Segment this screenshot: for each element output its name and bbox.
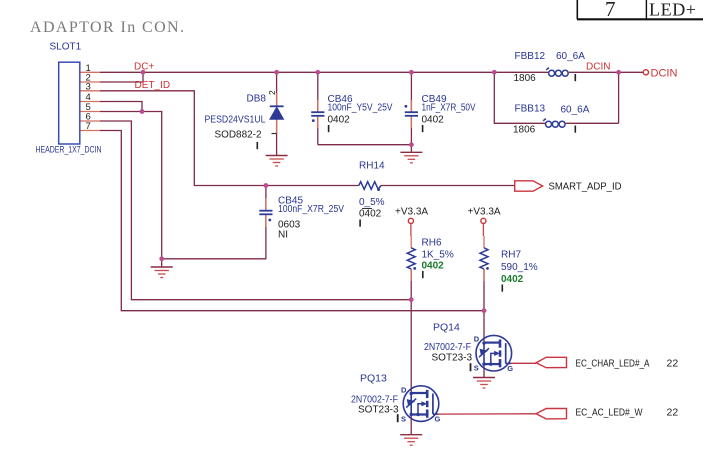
svg-text:+V3.3A: +V3.3A	[395, 207, 428, 218]
svg-text:SMART_ADP_ID: SMART_ADP_ID	[549, 181, 622, 193]
svg-text:DCIN: DCIN	[586, 62, 610, 73]
svg-text:60_6A: 60_6A	[556, 51, 585, 62]
svg-text:SOT23-3: SOT23-3	[432, 353, 473, 364]
svg-text:0402: 0402	[501, 274, 524, 285]
svg-text:22: 22	[667, 407, 679, 419]
svg-text:0402: 0402	[422, 261, 445, 272]
svg-text:SLOT1: SLOT1	[50, 42, 82, 53]
svg-text:EC_CHAR_LED#_A: EC_CHAR_LED#_A	[576, 358, 650, 370]
svg-text:D: D	[474, 335, 480, 344]
svg-text:S: S	[474, 364, 479, 373]
svg-text:RH14: RH14	[359, 161, 385, 172]
svg-text:SOD882-2: SOD882-2	[215, 130, 262, 141]
svg-text:2N7002-7-F: 2N7002-7-F	[424, 342, 471, 353]
svg-text:0_5%: 0_5%	[359, 197, 385, 208]
svg-text:LED+: LED+	[649, 0, 697, 20]
svg-text:+V3.3A: +V3.3A	[468, 207, 501, 218]
svg-text:RH7: RH7	[501, 250, 521, 261]
svg-text:0402: 0402	[328, 115, 351, 126]
svg-text:1nF_X7R_50V: 1nF_X7R_50V	[422, 103, 476, 114]
svg-text:FBB12: FBB12	[515, 51, 546, 62]
svg-text:1806: 1806	[513, 125, 536, 136]
svg-text:PQ13: PQ13	[360, 373, 387, 385]
svg-text:0402: 0402	[359, 209, 382, 220]
svg-text:1806: 1806	[514, 73, 537, 84]
svg-text:7: 7	[86, 121, 91, 132]
svg-text:DC+: DC+	[134, 62, 154, 73]
svg-text:SOT23-3: SOT23-3	[358, 405, 399, 416]
svg-text:DB8: DB8	[247, 94, 267, 105]
svg-text:0402: 0402	[422, 115, 445, 126]
svg-text:RH6: RH6	[422, 238, 442, 249]
svg-text:D: D	[401, 386, 407, 395]
svg-text:7: 7	[605, 0, 616, 21]
svg-text:HEADER_1X7_DCIN: HEADER_1X7_DCIN	[36, 145, 102, 156]
svg-text:590_1%: 590_1%	[501, 262, 538, 273]
svg-text:G: G	[435, 415, 441, 424]
svg-text:60_6A: 60_6A	[561, 105, 590, 116]
svg-text:S: S	[401, 415, 406, 424]
svg-text:DET_ID: DET_ID	[135, 80, 171, 91]
svg-text:1K_5%: 1K_5%	[422, 250, 454, 261]
svg-text:NI: NI	[278, 230, 288, 241]
svg-text:EC_AC_LED#_W: EC_AC_LED#_W	[576, 407, 643, 419]
svg-text:100nF_Y5V_25V: 100nF_Y5V_25V	[328, 103, 393, 114]
svg-text:100nF_X7R_25V: 100nF_X7R_25V	[278, 204, 344, 215]
svg-text:22: 22	[667, 358, 679, 370]
svg-text:PESD24VS1UL: PESD24VS1UL	[205, 115, 266, 126]
svg-text:2: 2	[267, 90, 277, 95]
svg-text:3: 3	[86, 82, 91, 93]
svg-text:PQ14: PQ14	[433, 322, 460, 334]
svg-text:ADAPTOR In CON.: ADAPTOR In CON.	[30, 19, 185, 36]
svg-text:G: G	[507, 364, 513, 373]
svg-text:DCIN: DCIN	[651, 67, 678, 79]
svg-text:FBB13: FBB13	[515, 104, 546, 115]
